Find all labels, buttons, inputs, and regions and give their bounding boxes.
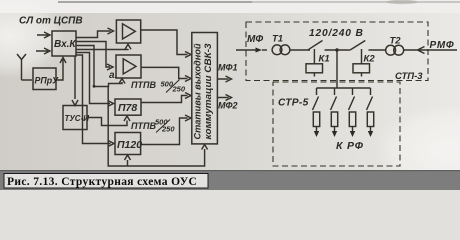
wire to center node — [325, 49, 351, 51]
svg-text:Вх.К: Вх.К — [54, 39, 76, 50]
wire to amp1 bottom — [76, 44, 131, 49]
svg-text:СТП-3: СТП-3 — [395, 71, 423, 82]
svg-text:Рис. 7.13. Структурная схема О: Рис. 7.13. Структурная схема ОУС — [7, 176, 197, 188]
svg-text:ПТПВ: ПТПВ — [131, 80, 156, 90]
svg-text:РПрУ: РПрУ — [35, 76, 60, 86]
amplifier U1 triangle — [123, 24, 136, 39]
fuse — [349, 112, 355, 127]
svg-text:К2: К2 — [364, 54, 376, 65]
svg-text:П78: П78 — [118, 102, 137, 114]
svg-text:МФ: МФ — [247, 34, 263, 45]
svg-text:120/240 В: 120/240 В — [309, 28, 364, 39]
switch blade — [349, 97, 355, 111]
switch blade S1 — [308, 41, 323, 50]
svg-text:РМФ: РМФ — [430, 40, 455, 51]
arrowhead to RF feeder — [332, 131, 337, 137]
wire РПрУ to Вх.К — [56, 58, 66, 81]
wire center drop to СТР-5 — [336, 50, 338, 88]
feeder branch 2 — [331, 88, 338, 137]
svg-text:П120: П120 — [117, 139, 142, 151]
transformer Т2 — [386, 45, 396, 55]
СТР-5 four feeder branches — [313, 88, 374, 137]
switch blade S2 — [351, 41, 366, 50]
wire П120 output — [141, 115, 192, 145]
wire drop from bus — [334, 88, 336, 95]
wire МФ1 output — [217, 76, 231, 82]
switch blade — [331, 97, 337, 111]
fuse — [331, 112, 337, 127]
svg-text:К1: К1 — [319, 54, 330, 65]
dashed box СТР-5 — [273, 82, 400, 166]
node junction — [335, 48, 338, 51]
svg-text:МФ2: МФ2 — [218, 101, 238, 111]
amplifier U2 triangle — [123, 59, 136, 74]
wire amp2 output — [141, 67, 191, 81]
wire П78 output — [141, 93, 191, 103]
wire drop from bus — [316, 88, 318, 95]
right section — [236, 22, 457, 166]
junction dot — [93, 85, 96, 88]
wire МФ feeder — [236, 49, 256, 51]
block Статив СВК-3 — [192, 33, 218, 144]
svg-text:К РФ: К РФ — [336, 140, 364, 152]
wire to feeder — [352, 127, 354, 132]
wire to П78 input — [76, 53, 114, 107]
caption frame — [4, 174, 208, 189]
svg-text:СЛ от ЦСПВ: СЛ от ЦСПВ — [19, 16, 83, 27]
svg-text:МФ1: МФ1 — [218, 63, 238, 73]
wire amp1 output — [141, 30, 192, 58]
wire Т1 to switch — [290, 49, 310, 51]
block П120 — [115, 133, 141, 155]
relay К1 coil — [306, 64, 323, 73]
svg-text:а.: а. — [109, 70, 117, 81]
relay К2 coil — [353, 64, 370, 73]
svg-text:СТР-5: СТР-5 — [278, 98, 309, 109]
block ТУС-И — [63, 106, 87, 130]
fuse — [313, 112, 319, 127]
wire СТР-5 bus — [317, 87, 371, 89]
wire К2 stem — [361, 49, 363, 77]
wire to Т2 — [369, 49, 386, 51]
transformer Т1 — [272, 45, 282, 55]
wire ТУС-И to П78 bottom — [88, 116, 130, 126]
block РПрУ — [33, 68, 56, 90]
wire to П120 input — [76, 55, 114, 147]
wire РМФ feeder — [404, 47, 457, 54]
antenna — [17, 54, 26, 80]
wire to amp2 input — [76, 42, 113, 71]
feeder branch 1 — [313, 88, 320, 137]
paper background — [0, 0, 460, 190]
caption bar — [0, 170, 460, 190]
block П78 — [115, 99, 141, 115]
node СЛ input lines — [37, 32, 50, 38]
arrowhead to RF feeder — [314, 131, 319, 137]
wire to feeder — [334, 127, 336, 132]
wire telecontrol bottom bus — [108, 87, 207, 167]
feeder branch 3 — [349, 88, 356, 137]
amplifier U2 box — [116, 55, 141, 78]
switch blade — [313, 97, 319, 111]
wire to feeder — [316, 127, 318, 132]
svg-text:Т2: Т2 — [390, 36, 402, 47]
wire antenna to РПрУ — [22, 79, 33, 81]
switch blade — [367, 97, 373, 111]
feeder branch 4 — [367, 88, 374, 137]
dashed box СТП-3 — [246, 22, 428, 81]
svg-text:ТУС-И: ТУС-И — [65, 114, 90, 123]
arrowhead to RF feeder — [350, 131, 355, 137]
svg-text:Т1: Т1 — [272, 34, 283, 45]
wire to amp1 input — [76, 28, 114, 38]
amplifier U1 box — [116, 20, 140, 43]
wire branch to П120 bottom — [125, 155, 131, 166]
wire Вх.К to ТУС-И — [72, 56, 78, 106]
arrowhead to RF feeder — [368, 131, 373, 137]
wire to feeder — [370, 127, 372, 132]
wire to amp2 bottom — [76, 46, 125, 87]
wire drop from bus — [352, 88, 354, 95]
block Вх.К — [52, 31, 76, 56]
svg-text:ПТПВ: ПТПВ — [131, 121, 156, 131]
wire drop from bus — [370, 88, 372, 95]
wire МФ2 output — [217, 95, 231, 101]
svg-text:Стативы выходной: Стативы выходной — [193, 43, 203, 140]
fuse — [367, 112, 373, 127]
wire К1 stem — [313, 49, 315, 77]
svg-text:коммутации СВК-3: коммутации СВК-3 — [203, 43, 213, 139]
